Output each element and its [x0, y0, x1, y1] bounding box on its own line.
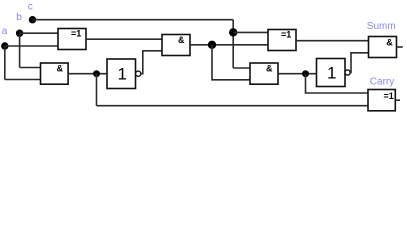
svg-text:a: a — [2, 26, 8, 37]
wire U6 branch down to U8 — [306, 74, 369, 93]
wire U2 output — [68, 73, 107, 75]
wire c vertical drop — [232, 20, 234, 68]
svg-text:=1: =1 — [281, 30, 291, 40]
svg-text:&: & — [386, 38, 393, 48]
and gate U3 — [162, 35, 190, 56]
xor gate U8 — [368, 90, 395, 111]
svg-text:&: & — [57, 64, 64, 74]
wire c to U4 input — [233, 31, 268, 33]
wire U3 output branch down to U6 — [212, 45, 251, 80]
junction after U3 — [208, 41, 216, 49]
xor gate U1 — [58, 29, 86, 50]
wire U7 output up to U5 — [350, 53, 369, 73]
wire U3 output to U4 — [190, 44, 269, 46]
wire bottom rail horizontal to U8 — [97, 105, 369, 107]
wire U4 output to U5 — [296, 40, 369, 42]
wire U8 output Carry stub — [395, 99, 400, 101]
svg-text:1: 1 — [118, 65, 127, 84]
wire a to U2 input — [5, 79, 41, 81]
svg-text:Carry: Carry — [370, 76, 394, 87]
wire bottom rail vertical — [96, 74, 98, 106]
svg-text:Summ: Summ — [367, 21, 396, 32]
wire a vertical drop — [4, 46, 6, 80]
junction on c net — [229, 28, 237, 36]
xor gate U4 — [268, 30, 296, 51]
wire b to U1 input — [20, 32, 59, 34]
node c terminal dot — [29, 16, 36, 23]
wire U6 output to U7 — [278, 73, 317, 75]
wire U5 output Summ stub — [397, 46, 403, 48]
node a terminal dot — [1, 42, 8, 49]
and gate U2 — [41, 63, 69, 84]
svg-text:=1: =1 — [384, 91, 394, 101]
and gate U5 — [369, 37, 397, 58]
svg-text:&: & — [178, 35, 185, 45]
wire U1 output to U3 — [86, 38, 163, 40]
svg-text:&: & — [266, 64, 273, 74]
wire b vertical drop — [19, 33, 21, 67]
junction after U6 — [302, 70, 309, 77]
wire U9 output up to U3 — [141, 51, 163, 74]
and gate U6 — [250, 63, 278, 84]
svg-text:=1: =1 — [71, 29, 81, 39]
junction after U2 — [93, 70, 100, 77]
node b terminal dot — [16, 30, 23, 37]
wire c to U6 input — [233, 67, 250, 69]
svg-text:b: b — [16, 12, 22, 23]
wire b to U2 input — [20, 67, 41, 69]
svg-text:c: c — [28, 1, 33, 12]
not gate U7 — [317, 59, 351, 87]
not gate U9 — [107, 59, 141, 89]
wire c horizontal rail — [33, 19, 234, 21]
svg-text:1: 1 — [327, 64, 336, 83]
wire a to U1 input — [5, 45, 59, 47]
